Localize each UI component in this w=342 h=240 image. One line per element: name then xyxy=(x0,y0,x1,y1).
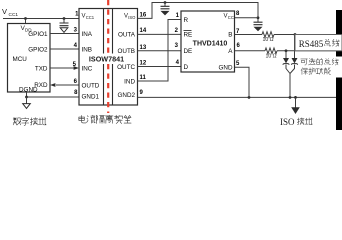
wire GPIO2-INB xyxy=(50,48,79,50)
wire IND to R (long vertical) xyxy=(138,20,182,82)
junction B tap xyxy=(294,33,297,36)
svg-text:INB: INB xyxy=(82,46,93,53)
svg-text:V: V xyxy=(2,7,7,16)
svg-text:10 Ω: 10 Ω xyxy=(265,53,276,59)
wire A TVS drop xyxy=(285,51,287,58)
svg-text:CC1: CC1 xyxy=(9,12,19,18)
arrowhead into MCU RXD pin xyxy=(50,83,55,87)
junction TVS common to rail xyxy=(289,96,292,99)
svg-text:TXD: TXD xyxy=(35,65,48,72)
wire TVS common to rail xyxy=(286,65,295,98)
caption isolation barrier xyxy=(79,115,131,123)
svg-text:11: 11 xyxy=(140,75,147,81)
svg-text:OUTA: OUTA xyxy=(118,32,136,39)
wire B TVS drop xyxy=(294,35,296,59)
svg-text:GPIO1: GPIO1 xyxy=(28,31,48,38)
svg-text:THVD1410: THVD1410 xyxy=(193,41,228,48)
wire A line xyxy=(235,50,266,52)
pin label VCC1 (U2) xyxy=(82,13,95,20)
wire OUTB to DE xyxy=(138,50,182,52)
svg-text:D: D xyxy=(184,64,189,71)
TVS diode D2 (from B) xyxy=(291,58,298,65)
isolator U2 ISOW7841 box xyxy=(79,9,138,106)
TVS diode D1 (from A) xyxy=(283,58,290,65)
wire TXD-INC xyxy=(50,67,74,69)
junction A tap xyxy=(285,49,288,52)
svg-text:R: R xyxy=(184,17,189,24)
svg-text:DE: DE xyxy=(184,48,193,55)
svg-text:OUTC: OUTC xyxy=(117,64,135,71)
svg-text:16: 16 xyxy=(140,12,147,18)
svg-text:CC: CC xyxy=(228,15,234,20)
wire VDD stub xyxy=(25,19,27,24)
optional protection text xyxy=(299,57,342,78)
ground (ISO, filled triangle) under C2 xyxy=(161,11,170,16)
RS485 bus bar xyxy=(336,10,342,130)
caption digital ground xyxy=(13,118,46,126)
junction DGND node xyxy=(25,96,28,99)
resistor R1 10ohm xyxy=(262,32,274,38)
svg-text:GND2: GND2 xyxy=(118,92,136,99)
wire VISO rail to THVD VCC xyxy=(138,3,259,23)
svg-text:RE: RE xyxy=(184,32,193,39)
junction VCC pin8 node xyxy=(257,16,260,19)
capacitor C2 (VISO bypass) xyxy=(164,3,166,7)
pin label VDD (MCU) xyxy=(21,25,33,33)
capacitor C1 (digital VCC1 bypass) xyxy=(60,17,69,26)
svg-text:12: 12 xyxy=(140,61,147,67)
wire THVD GND pin5 xyxy=(235,67,250,97)
pin label VCC (U3 pin 8) xyxy=(223,13,233,20)
junction VDD tap xyxy=(24,17,27,20)
wire VCC1 rail xyxy=(3,18,79,20)
wire GPIO1-INA xyxy=(50,33,79,35)
node VCC1 label xyxy=(2,7,18,18)
ground (digital) below MCU xyxy=(26,97,28,104)
pin label VISO (U2 pin 16) xyxy=(124,13,136,20)
svg-text:14: 14 xyxy=(140,28,147,34)
svg-text:DGND: DGND xyxy=(19,86,38,93)
svg-text:INC: INC xyxy=(82,65,93,72)
svg-text:GND: GND xyxy=(219,65,233,72)
svg-text:OUTB: OUTB xyxy=(118,48,136,55)
wire THVD VCC pin8 xyxy=(235,17,259,19)
wire RXD-OUTD xyxy=(56,84,79,86)
svg-text:OUTD: OUTD xyxy=(82,82,100,89)
wire A line to bus xyxy=(277,50,338,52)
svg-text:GPIO2: GPIO2 xyxy=(28,46,48,53)
wire B line to bus xyxy=(274,34,338,36)
ground (digital, open triangle) under C1 xyxy=(60,28,68,33)
svg-text:ISO: ISO xyxy=(280,117,295,127)
junction C2 tap on VISO rail xyxy=(164,1,167,4)
svg-text:GND1: GND1 xyxy=(82,94,100,101)
arrowhead into INC pin xyxy=(74,66,79,70)
svg-text:B: B xyxy=(228,32,232,39)
svg-text:10 Ω: 10 Ω xyxy=(262,37,273,43)
ground (ISO, filled triangle) under C3 xyxy=(254,27,263,32)
junction THVD GND to rail xyxy=(248,96,251,99)
svg-text:CC1: CC1 xyxy=(86,15,95,20)
junction ISO ground tap xyxy=(294,96,297,99)
RS485 bus label box xyxy=(295,35,342,51)
ground ISO arrowhead xyxy=(291,107,300,114)
svg-text:13: 13 xyxy=(140,45,147,51)
capacitor C3 (THVD VCC bypass) xyxy=(254,22,263,25)
wire OUTA to RE xyxy=(138,33,182,35)
svg-text:ISO: ISO xyxy=(128,15,136,20)
wire OUTC to D xyxy=(138,66,182,68)
pin label RE with overline (U3 pin 2) xyxy=(184,31,193,39)
MCU U1 box xyxy=(8,24,51,93)
isolation barrier red dashed line xyxy=(107,0,109,113)
wire B line xyxy=(235,34,263,36)
svg-text:IND: IND xyxy=(124,78,135,85)
transceiver U3 THVD1410 box xyxy=(181,11,235,72)
wire GND2 / ISO ground rail xyxy=(138,96,337,98)
svg-text:RS485: RS485 xyxy=(299,39,324,49)
ground ISO arrow xyxy=(295,97,297,108)
svg-text:INA: INA xyxy=(82,31,93,38)
wire DGND-GND1 xyxy=(27,92,80,97)
isolation barrier double lines xyxy=(104,9,113,105)
svg-text:ISOW7841: ISOW7841 xyxy=(89,55,124,64)
svg-text:MCU: MCU xyxy=(13,56,28,63)
resistor R2 10ohm xyxy=(265,48,277,54)
